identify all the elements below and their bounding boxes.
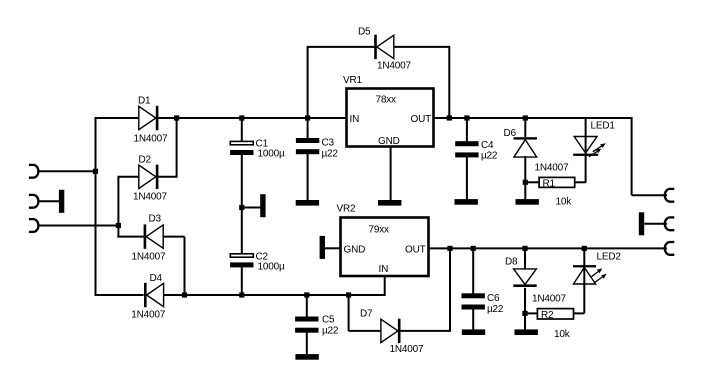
wire bbox=[163, 294, 385, 296]
node D8-R2 bbox=[522, 311, 527, 316]
svg-text:1N4007: 1N4007 bbox=[134, 134, 168, 145]
wire D3 output vertical bbox=[184, 237, 186, 295]
wire bbox=[158, 176, 177, 178]
wire bbox=[632, 194, 667, 196]
chassis bar mid bbox=[260, 194, 265, 217]
node D5 return bbox=[447, 115, 452, 120]
node C6 top bbox=[471, 246, 476, 251]
wire bbox=[39, 170, 96, 172]
svg-text:VR1: VR1 bbox=[343, 75, 362, 86]
node C1 top bbox=[239, 115, 244, 120]
ground C3 bbox=[296, 200, 319, 206]
svg-text:D1: D1 bbox=[138, 96, 151, 107]
wire bbox=[163, 236, 184, 238]
diode D8 bbox=[514, 269, 537, 285]
resistor R2 bbox=[537, 309, 573, 319]
node D1/D2 junction bbox=[174, 115, 179, 120]
wire top rail bbox=[95, 117, 140, 119]
wire bbox=[117, 236, 143, 238]
wire bbox=[583, 283, 585, 313]
node C3 top / D5 tap bbox=[305, 115, 310, 120]
capacitor C2 1000u bbox=[230, 254, 253, 257]
diode D6 bbox=[514, 137, 537, 139]
svg-text:79xx: 79xx bbox=[369, 225, 390, 236]
wire D5 right vertical bbox=[448, 46, 450, 118]
wire bbox=[524, 118, 526, 137]
capacitor C5 u22 bbox=[295, 317, 318, 322]
wire bbox=[241, 267, 243, 296]
ground C4 bbox=[455, 199, 478, 205]
capacitor C3 u22 bbox=[296, 138, 319, 143]
node D6 top bbox=[523, 115, 528, 120]
svg-text:VR2: VR2 bbox=[337, 204, 356, 215]
svg-text:1000µ: 1000µ bbox=[258, 149, 285, 160]
node C2 bottom bbox=[239, 292, 244, 297]
node J3 junction bbox=[116, 223, 121, 228]
wire VR1 GND pin bbox=[390, 146, 392, 201]
node D7 bbox=[447, 246, 452, 251]
svg-text:OUT: OUT bbox=[405, 245, 426, 256]
wire VR2 IN pin bbox=[384, 276, 386, 297]
node VR2 in junction bbox=[346, 292, 351, 297]
wire bbox=[158, 117, 346, 119]
diode D2 bbox=[139, 165, 156, 188]
chassis bar input bbox=[59, 190, 64, 213]
wire bbox=[525, 181, 539, 183]
wire VR1 out rail bbox=[434, 117, 632, 119]
wire bbox=[524, 156, 526, 200]
wire D7 drop bbox=[348, 295, 350, 331]
capacitor C4 u22 bbox=[455, 141, 478, 146]
svg-text:µ22: µ22 bbox=[487, 304, 504, 315]
connector J3 input bottom bbox=[29, 219, 39, 232]
svg-text:10k: 10k bbox=[554, 329, 571, 340]
wire bbox=[575, 181, 586, 183]
svg-text:10k: 10k bbox=[556, 197, 573, 208]
wire bbox=[241, 155, 243, 254]
svg-text:µ22: µ22 bbox=[481, 151, 498, 162]
wire VR2 out rail bbox=[429, 247, 668, 249]
wire bbox=[585, 155, 587, 183]
svg-text:D2: D2 bbox=[139, 155, 152, 166]
diode D7 bbox=[381, 319, 398, 342]
svg-text:µ22: µ22 bbox=[322, 326, 339, 337]
connector J2 input middle bbox=[29, 195, 39, 208]
diode D4 bbox=[144, 283, 147, 307]
node D8 top bbox=[522, 246, 527, 251]
wire bbox=[401, 330, 451, 332]
LED2 arrows bbox=[591, 272, 598, 278]
capacitor C1 1000u bbox=[230, 141, 253, 144]
wire bbox=[307, 154, 309, 201]
node C4 top bbox=[464, 115, 469, 120]
diode D5 bbox=[374, 35, 377, 59]
svg-text:GND: GND bbox=[378, 136, 400, 147]
svg-text:1N4007: 1N4007 bbox=[535, 163, 569, 174]
svg-text:IN: IN bbox=[350, 114, 360, 125]
ground C6 bbox=[462, 329, 485, 335]
connector J1 input top bbox=[29, 165, 39, 178]
svg-text:LED1: LED1 bbox=[591, 120, 616, 131]
node C5 top bbox=[304, 292, 309, 297]
resistor R1 bbox=[539, 177, 575, 187]
wire bbox=[39, 200, 60, 202]
connector J5 output middle bbox=[665, 217, 675, 230]
wire bbox=[241, 118, 243, 141]
svg-text:D5: D5 bbox=[358, 27, 371, 38]
svg-text:IN: IN bbox=[379, 264, 389, 275]
svg-text:1N4007: 1N4007 bbox=[131, 310, 165, 321]
ground D8 bbox=[515, 329, 538, 335]
wire D5 top bbox=[308, 46, 375, 48]
node D3 junction bbox=[182, 292, 187, 297]
svg-text:LED2: LED2 bbox=[597, 251, 622, 262]
svg-text:C3: C3 bbox=[322, 138, 335, 149]
wire D2-D3 vertical bbox=[117, 177, 119, 238]
wire bbox=[39, 225, 119, 227]
wire bbox=[466, 157, 468, 200]
svg-text:1N4007: 1N4007 bbox=[377, 61, 411, 72]
svg-text:R2: R2 bbox=[541, 310, 554, 321]
wire bbox=[574, 312, 585, 314]
node D6-R1 bbox=[523, 180, 528, 185]
svg-text:D6: D6 bbox=[504, 128, 517, 139]
wire bbox=[466, 118, 468, 142]
wire bbox=[306, 332, 308, 354]
regulator VR2 box bbox=[341, 218, 429, 277]
svg-text:1N4007: 1N4007 bbox=[532, 294, 566, 305]
LED1 arrows bbox=[593, 146, 602, 152]
wire bbox=[472, 309, 474, 330]
node C1-C2 midpoint bbox=[239, 205, 244, 210]
wire to chassis bar bbox=[242, 207, 260, 209]
ground C5 bbox=[295, 354, 318, 360]
ground VR1 bbox=[378, 200, 401, 206]
node J1 junction bbox=[93, 169, 98, 174]
svg-text:C6: C6 bbox=[487, 293, 500, 304]
wire bbox=[524, 248, 526, 270]
wire bbox=[644, 223, 667, 225]
node LED2 junction bbox=[582, 246, 587, 251]
wire D7 riser bbox=[449, 248, 451, 332]
chassis bar output bbox=[639, 212, 644, 235]
diode D1 bbox=[139, 106, 156, 129]
connector J6 output bottom bbox=[665, 242, 675, 255]
wire bbox=[394, 46, 450, 48]
capacitor C6 u22 bbox=[462, 293, 485, 298]
svg-text:D8: D8 bbox=[505, 257, 518, 268]
op-amp U1 / regulator VR1 box bbox=[347, 89, 434, 147]
wire bbox=[631, 117, 633, 195]
svg-text:78xx: 78xx bbox=[376, 95, 397, 106]
svg-text:C5: C5 bbox=[322, 315, 335, 326]
wire bbox=[525, 312, 538, 314]
wire bbox=[325, 247, 341, 249]
wire left vertical bbox=[95, 117, 97, 296]
wire bottom rail bbox=[95, 294, 144, 296]
wire LED2 top bbox=[583, 248, 585, 284]
svg-text:C4: C4 bbox=[481, 140, 494, 151]
svg-text:1N4007: 1N4007 bbox=[132, 252, 166, 263]
svg-text:1N4007: 1N4007 bbox=[390, 344, 424, 355]
diode D3 bbox=[144, 224, 147, 248]
connector J4 output top bbox=[665, 189, 675, 202]
svg-text:GND: GND bbox=[344, 245, 366, 256]
chassis bar VR2 gnd bbox=[320, 236, 325, 259]
svg-text:D7: D7 bbox=[360, 309, 373, 320]
wire LED1 top bbox=[585, 118, 587, 154]
svg-text:OUT: OUT bbox=[411, 114, 432, 125]
wire bbox=[472, 248, 474, 294]
wire bbox=[306, 295, 308, 317]
wire D2 output vertical bbox=[176, 118, 178, 177]
svg-text:1000µ: 1000µ bbox=[258, 262, 285, 273]
svg-text:1N4007: 1N4007 bbox=[133, 191, 167, 202]
ground D6 bbox=[516, 199, 539, 205]
wire bbox=[349, 330, 381, 332]
wire bbox=[307, 118, 309, 139]
svg-text:D4: D4 bbox=[150, 273, 163, 284]
wire D5 left vertical bbox=[307, 46, 309, 118]
wire bbox=[117, 176, 139, 178]
svg-text:µ22: µ22 bbox=[322, 149, 339, 160]
svg-text:R1: R1 bbox=[543, 178, 556, 189]
svg-text:D3: D3 bbox=[149, 214, 162, 225]
wire bbox=[524, 288, 526, 330]
